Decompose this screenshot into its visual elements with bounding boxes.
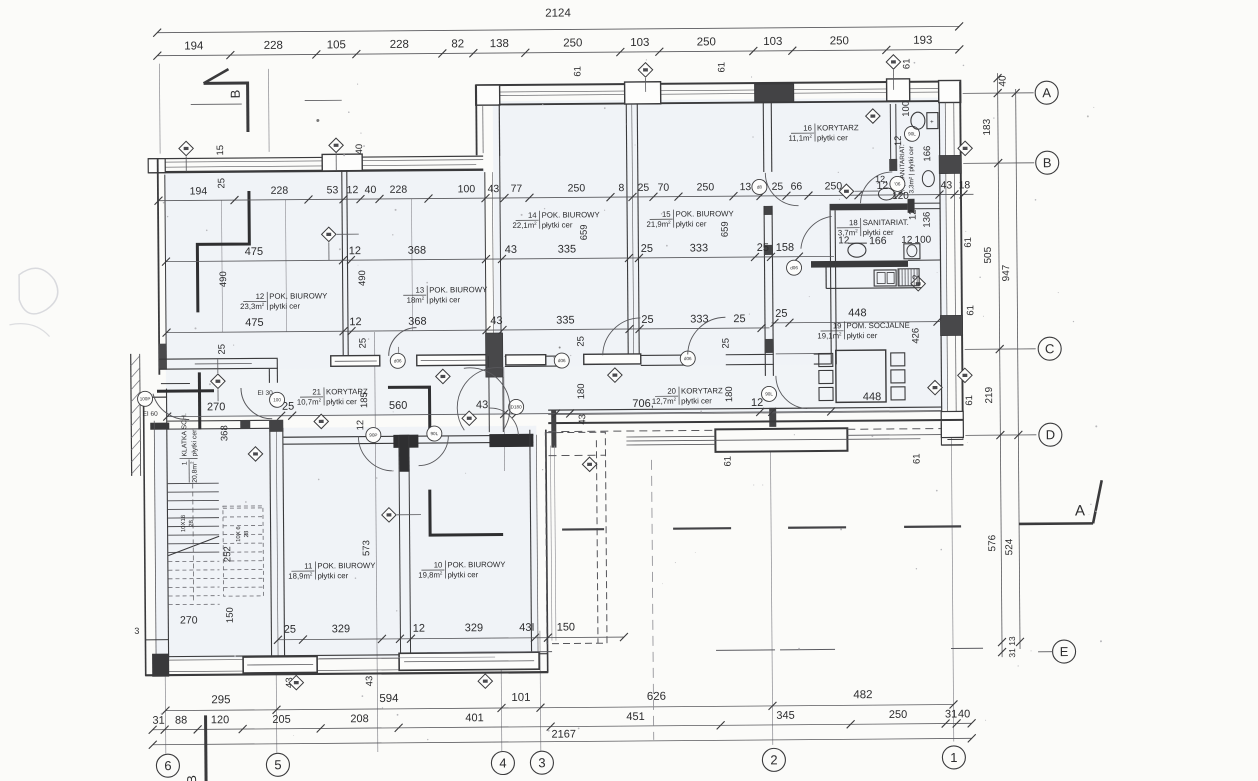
svg-text:329: 329 xyxy=(465,622,483,634)
svg-text:25: 25 xyxy=(216,178,227,189)
room label 15 xyxy=(646,209,734,229)
svg-text:82: 82 xyxy=(451,38,464,50)
svg-text:43: 43 xyxy=(488,183,500,195)
svg-text:25: 25 xyxy=(641,243,653,255)
svg-text:524: 524 xyxy=(1004,538,1015,555)
svg-text:368: 368 xyxy=(219,425,230,441)
grid bubble 6 xyxy=(156,754,179,777)
svg-text:płytki cer: płytki cer xyxy=(429,295,460,304)
washbasin corridor17 xyxy=(922,171,934,187)
door circle d06 xyxy=(786,260,801,275)
svg-text:10: 10 xyxy=(434,560,443,569)
wall stub below room19 door xyxy=(769,408,776,427)
svg-text:208: 208 xyxy=(350,713,368,725)
svg-text:252: 252 xyxy=(222,546,233,562)
dim chain bottom total 2167 xyxy=(153,738,972,744)
svg-text:451: 451 xyxy=(626,711,644,723)
svg-text:2167: 2167 xyxy=(551,728,576,740)
svg-text:4: 4 xyxy=(499,755,506,770)
svg-text:61: 61 xyxy=(901,58,912,69)
svg-text:90L: 90L xyxy=(765,391,773,396)
svg-text:295: 295 xyxy=(211,694,230,706)
door arc room14 xyxy=(602,318,640,355)
svg-text:61: 61 xyxy=(723,456,734,467)
svg-text:120: 120 xyxy=(211,714,229,726)
door arc room11 xyxy=(358,436,393,471)
building corner step SE xyxy=(940,423,942,446)
door arc room19 xyxy=(776,376,807,409)
entrance slab xyxy=(715,428,847,452)
svg-text:19: 19 xyxy=(833,321,842,330)
svg-text:180: 180 xyxy=(576,383,587,399)
svg-text:płytki cer: płytki cer xyxy=(676,219,707,228)
terrace vertical dash xyxy=(652,460,654,740)
svg-text:25: 25 xyxy=(284,624,296,636)
svg-text:100: 100 xyxy=(901,101,912,117)
svg-text:180: 180 xyxy=(724,386,735,402)
door circle 100 xyxy=(270,392,285,407)
svg-text:21,9m2: 21,9m2 xyxy=(646,220,671,229)
svg-text:KORYTARZ: KORYTARZ xyxy=(326,387,368,396)
svg-text:193: 193 xyxy=(913,35,932,47)
sink oval sanit17 lower xyxy=(878,188,894,200)
svg-text:482: 482 xyxy=(853,689,872,701)
dim chain bottom level 2 xyxy=(153,723,972,729)
svg-text:B: B xyxy=(228,90,243,99)
exterior wall top (left block) xyxy=(148,156,483,159)
section marker B top xyxy=(204,81,248,84)
svg-text:11: 11 xyxy=(304,562,312,571)
svg-text:158: 158 xyxy=(776,242,794,254)
kitchen counter xyxy=(826,287,921,290)
wall corner jog bottom-left xyxy=(145,639,169,641)
svg-text:43: 43 xyxy=(364,676,375,687)
table room19 xyxy=(836,350,886,402)
svg-text:40: 40 xyxy=(354,144,365,155)
svg-text:505: 505 xyxy=(983,246,994,263)
exterior wall south (lower block) xyxy=(154,654,548,657)
wall corridor21 north band xyxy=(159,357,278,360)
svg-text:D: D xyxy=(1046,427,1056,442)
svg-text:6: 6 xyxy=(164,758,171,773)
svg-text:43: 43 xyxy=(505,244,517,256)
svg-text:22,1m2: 22,1m2 xyxy=(512,221,537,230)
svg-text:66: 66 xyxy=(791,181,803,193)
dim chain y329 xyxy=(167,328,770,333)
svg-text:333: 333 xyxy=(690,242,708,254)
svg-text:205: 205 xyxy=(272,714,290,726)
wall stairwell north xyxy=(150,423,169,430)
svg-text:19,8m2: 19,8m2 xyxy=(418,570,443,579)
svg-text:KORYTARZ: KORYTARZ xyxy=(817,123,859,132)
scan smudge left margin xyxy=(19,268,58,314)
door circle d06 xyxy=(890,176,905,191)
svg-text:28: 28 xyxy=(244,530,250,537)
wall box segment right xyxy=(399,652,539,670)
room label 14 xyxy=(512,210,600,230)
grid extension lines to right bubbles xyxy=(963,92,1034,95)
svg-text:25: 25 xyxy=(576,336,587,347)
svg-text:15: 15 xyxy=(662,210,671,219)
partition mark room12 (thick zigzag) xyxy=(197,191,250,312)
svg-text:POK. BIUROWY: POK. BIUROWY xyxy=(429,285,488,294)
svg-text:POK. BIUROWY: POK. BIUROWY xyxy=(542,210,601,219)
svg-text:d8: d8 xyxy=(757,185,763,190)
svg-text:150: 150 xyxy=(225,607,236,623)
diamond markers xyxy=(179,141,194,156)
svg-text:40: 40 xyxy=(998,75,1009,87)
svg-text:250: 250 xyxy=(563,37,582,49)
wall dark T-stub rooms11/10 doors xyxy=(393,435,418,448)
svg-text:d06: d06 xyxy=(394,358,402,363)
svg-text:490: 490 xyxy=(357,270,368,286)
svg-text:POK. BIUROWY: POK. BIUROWY xyxy=(317,561,376,570)
porch dashed outline xyxy=(545,432,607,643)
svg-text:płytki cer: płytki cer xyxy=(269,302,300,311)
stairs center line xyxy=(192,483,195,603)
door arc room13 xyxy=(389,328,417,356)
svg-text:61: 61 xyxy=(912,453,923,464)
svg-text:90P: 90P xyxy=(369,433,377,438)
wall window pier xyxy=(625,82,661,104)
svg-text:43: 43 xyxy=(490,315,502,327)
grid line 6 top xyxy=(158,64,161,154)
grid line 5 top xyxy=(267,69,270,152)
svg-text:SANITARIAT.: SANITARIAT. xyxy=(863,218,909,227)
svg-text:576: 576 xyxy=(987,534,998,551)
dim chain top segments xyxy=(157,49,959,55)
svg-text:194: 194 xyxy=(190,185,208,197)
bottom grid extension lines xyxy=(164,677,167,754)
room label 18 xyxy=(837,218,909,238)
svg-text:573: 573 xyxy=(361,540,372,556)
svg-text:18,9m2: 18,9m2 xyxy=(288,571,313,580)
svg-text:228: 228 xyxy=(271,185,289,197)
chairs left xyxy=(819,353,833,366)
svg-text:100: 100 xyxy=(273,397,281,402)
wall divider corridor16/sanitariat17 xyxy=(889,104,892,171)
wall glazing line xyxy=(319,657,495,658)
wall divider room14/15 xyxy=(626,104,628,355)
svg-text:d06: d06 xyxy=(790,265,798,270)
svg-text:18: 18 xyxy=(849,218,858,227)
svg-text:401: 401 xyxy=(465,712,483,724)
svg-text:B: B xyxy=(1043,155,1052,170)
wall turn-down at corridor/stair xyxy=(268,369,270,383)
svg-text:335: 335 xyxy=(556,314,574,326)
wall corner pier right xyxy=(939,80,961,102)
svg-text:13: 13 xyxy=(415,286,424,295)
svg-text:płytki cer: płytki cer xyxy=(863,228,894,237)
svg-text:270: 270 xyxy=(180,614,198,626)
svg-text:płytki cer: płytki cer xyxy=(191,429,198,457)
svg-text:+: + xyxy=(930,120,934,126)
wall divider room11/10 x398-408 xyxy=(399,436,401,657)
svg-text:C: C xyxy=(1045,341,1055,356)
grid bubble E xyxy=(1052,640,1075,663)
svg-text:12: 12 xyxy=(256,292,265,301)
svg-text:136: 136 xyxy=(922,212,933,228)
svg-text:138: 138 xyxy=(490,38,509,50)
svg-text:d06: d06 xyxy=(558,358,566,363)
door circle 90L xyxy=(904,126,919,141)
door arc stairwell right xyxy=(241,388,272,419)
terrace boundary dashes row1 xyxy=(562,528,604,531)
svg-text:270: 270 xyxy=(207,401,225,413)
svg-text:25: 25 xyxy=(772,181,784,193)
svg-text:POK. BIUROWY: POK. BIUROWY xyxy=(447,560,506,569)
terrace boundary dashes row2 xyxy=(427,651,552,654)
svg-text:100P: 100P xyxy=(140,396,151,401)
svg-text:3,3m² | płytki cer: 3,3m² | płytki cer xyxy=(908,145,915,193)
exterior wall left (lower block) xyxy=(144,397,146,676)
stairs treads xyxy=(168,483,220,552)
svg-text:706,: 706, xyxy=(632,398,654,410)
svg-text:475: 475 xyxy=(245,246,263,258)
svg-text:329: 329 xyxy=(332,623,350,635)
svg-text:25: 25 xyxy=(775,308,787,320)
slab right lines xyxy=(847,434,941,437)
partition mark room10 (thick L) xyxy=(430,489,503,535)
room label 19 xyxy=(817,321,910,341)
exterior wall left (left block) xyxy=(158,159,160,375)
door circle d06 xyxy=(680,351,695,366)
exterior wall right (lower block) x529-546 xyxy=(530,430,532,661)
grid bubble 2 xyxy=(762,748,785,771)
wall lower block north xyxy=(283,435,533,437)
svg-text:1: 1 xyxy=(182,461,189,465)
svg-text:659: 659 xyxy=(579,224,590,240)
grid bubble 3 xyxy=(530,751,553,774)
dim chain y413 corridor xyxy=(167,411,941,417)
svg-text:EI 60: EI 60 xyxy=(143,411,159,418)
svg-text:25: 25 xyxy=(721,338,732,349)
svg-text:70: 70 xyxy=(658,182,670,194)
svg-text:333: 333 xyxy=(690,313,708,325)
svg-text:368: 368 xyxy=(408,316,426,328)
hatched neighbour wall xyxy=(131,354,141,476)
toilet sanitariat17 xyxy=(911,112,925,129)
svg-text:A: A xyxy=(1075,502,1085,519)
svg-text:15: 15 xyxy=(215,145,226,156)
door circle 90L xyxy=(761,386,776,401)
exterior wall top (right block) xyxy=(476,81,961,85)
wall bottom of sanitariat18 xyxy=(811,260,908,267)
wall stub xyxy=(551,410,556,448)
svg-text:43: 43 xyxy=(577,414,588,425)
svg-text:12: 12 xyxy=(349,316,361,328)
stairs diagonal xyxy=(168,536,219,555)
building interior tint xyxy=(152,98,949,659)
room label 12 xyxy=(240,291,328,311)
grid bubble A xyxy=(1035,81,1058,104)
partition mark corridor21 (thick L) xyxy=(388,387,430,434)
wall pier window box xyxy=(322,154,362,171)
wall pier left corner xyxy=(148,159,165,173)
svg-text:25: 25 xyxy=(733,313,745,325)
svg-text:23,3m2: 23,3m2 xyxy=(240,302,265,311)
slab approach lines xyxy=(626,435,715,438)
door arc vestibule xyxy=(464,368,510,431)
wall band room13 segment xyxy=(331,355,380,366)
svg-text:5: 5 xyxy=(274,757,281,772)
grid bubble C xyxy=(1038,337,1061,360)
stairs dashed lower flight xyxy=(168,506,264,605)
svg-text:25: 25 xyxy=(217,344,228,355)
exterior wall right xyxy=(960,81,963,438)
svg-text:61: 61 xyxy=(964,395,975,406)
svg-text:21: 21 xyxy=(312,387,321,396)
svg-text:płytki cer: płytki cer xyxy=(847,331,878,340)
svg-text:d06: d06 xyxy=(684,356,692,361)
door circle 90P xyxy=(366,427,381,442)
svg-text:10X 6: 10X 6 xyxy=(236,526,242,542)
svg-text:13: 13 xyxy=(740,181,752,193)
svg-text:2: 2 xyxy=(770,752,777,767)
room label 1 stairwell (rotated) xyxy=(179,413,199,483)
svg-text:A: A xyxy=(1042,85,1051,100)
svg-text:194: 194 xyxy=(184,40,204,52)
svg-text:43I: 43I xyxy=(519,622,534,634)
wall top of sanitariat18 xyxy=(830,203,908,210)
wall window pier xyxy=(887,79,910,101)
svg-text:53: 53 xyxy=(327,184,339,196)
svg-text:3: 3 xyxy=(538,755,545,770)
svg-text:228: 228 xyxy=(390,184,408,196)
dim chain bottom level 1 xyxy=(166,704,954,710)
svg-text:płytki cer: płytki cer xyxy=(542,220,573,229)
svg-text:105: 105 xyxy=(327,39,346,51)
svg-text:61: 61 xyxy=(716,62,727,73)
svg-text:POK. BIUROWY: POK. BIUROWY xyxy=(676,209,735,218)
svg-text:14: 14 xyxy=(528,211,537,220)
wall corner pier xyxy=(941,411,963,437)
washbasin sanitariat18 xyxy=(848,243,866,257)
svg-text:3,7m2: 3,7m2 xyxy=(838,228,858,237)
porch inner lines xyxy=(550,446,552,641)
svg-text:100: 100 xyxy=(458,183,476,195)
wall corridor20/room19 xyxy=(830,210,831,364)
svg-text:18: 18 xyxy=(959,179,971,191)
wall divider room15/corridor16 xyxy=(762,103,765,172)
svg-text:103: 103 xyxy=(763,36,782,48)
svg-text:25: 25 xyxy=(638,182,650,194)
svg-text:19,1m2: 19,1m2 xyxy=(817,331,842,340)
wall dark pier xyxy=(755,84,794,102)
svg-text:61: 61 xyxy=(572,66,583,77)
room label 16 xyxy=(788,123,859,143)
wall between blocks x486-502 xyxy=(485,172,486,356)
svg-text:25: 25 xyxy=(641,314,653,326)
svg-text:11,1m2: 11,1m2 xyxy=(788,134,812,143)
svg-text:166: 166 xyxy=(922,146,933,162)
svg-text:2124: 2124 xyxy=(545,7,571,19)
svg-text:D180: D180 xyxy=(511,404,522,409)
svg-text:77: 77 xyxy=(511,183,523,195)
wall pier xyxy=(159,344,167,370)
svg-text:25: 25 xyxy=(358,338,369,349)
door arc entrance xyxy=(489,408,518,435)
door arc room10 xyxy=(418,435,448,465)
dim chain y258 xyxy=(166,256,834,261)
svg-text:335: 335 xyxy=(558,243,576,255)
svg-text:10,7m2: 10,7m2 xyxy=(297,397,322,406)
svg-text:101: 101 xyxy=(511,692,530,704)
svg-text:płytki cer: płytki cer xyxy=(317,571,348,580)
door arc corridor16 xyxy=(765,173,798,206)
svg-text:250: 250 xyxy=(697,181,715,193)
svg-text:88: 88 xyxy=(175,714,187,726)
section marker B bottom xyxy=(204,715,208,781)
svg-text:POM. SOCJALNE: POM. SOCJALNE xyxy=(846,321,909,330)
svg-text:560: 560 xyxy=(389,400,407,412)
door circle d06 xyxy=(390,353,405,368)
exterior wall south (right block) xyxy=(548,407,941,410)
svg-text:150: 150 xyxy=(557,621,575,633)
svg-text:10X16: 10X16 xyxy=(181,514,187,532)
wall pier xyxy=(940,315,962,335)
svg-text:43: 43 xyxy=(941,179,953,191)
door circle d08 xyxy=(752,179,767,194)
svg-text:12: 12 xyxy=(413,623,425,635)
scan speckle noise xyxy=(156,56,1103,743)
svg-text:E: E xyxy=(1060,644,1069,659)
grid bubble 5 xyxy=(266,753,289,776)
scan specks xyxy=(316,119,319,122)
door arc sanitariat18 xyxy=(801,216,832,248)
wall divider stair/room11 x269-283 xyxy=(270,420,272,658)
svg-text:594: 594 xyxy=(379,693,399,705)
svg-text:250: 250 xyxy=(697,36,716,48)
svg-text:475: 475 xyxy=(245,317,263,329)
svg-text:228: 228 xyxy=(264,40,283,52)
dim chain y324 room19 xyxy=(771,322,940,323)
room label 13 xyxy=(403,285,488,305)
svg-text:20: 20 xyxy=(667,387,676,396)
exterior wall left (right block) xyxy=(475,85,478,155)
door circle D180 xyxy=(509,399,524,414)
section marker A right xyxy=(1019,522,1093,525)
svg-text:250: 250 xyxy=(830,35,849,47)
wall corner pier xyxy=(476,85,500,105)
svg-text:3: 3 xyxy=(134,626,139,636)
wall divider room12/13 xyxy=(342,170,343,357)
svg-text:90L: 90L xyxy=(908,131,916,136)
room label 11 xyxy=(288,561,376,581)
svg-text:626: 626 xyxy=(647,691,666,703)
grid bubble 1 xyxy=(942,746,965,769)
partition cross near stairwell xyxy=(157,389,214,392)
dim chain y637 lower rooms xyxy=(278,637,624,640)
wall pier xyxy=(939,155,961,173)
svg-text:'06: '06 xyxy=(894,181,900,186)
wall vestibule xyxy=(487,356,489,367)
door arc room15 xyxy=(687,317,725,354)
dim chain total 2124 (top) xyxy=(157,26,959,32)
room label 17 (rotated) xyxy=(899,144,915,195)
room label 21 xyxy=(297,387,368,407)
svg-text:61: 61 xyxy=(963,237,974,248)
svg-text:płytki cer: płytki cer xyxy=(447,570,478,579)
svg-text:12: 12 xyxy=(751,397,763,409)
door circle d06 xyxy=(554,353,569,368)
svg-text:12: 12 xyxy=(908,209,919,220)
extension lines interior xyxy=(285,200,286,332)
wall corner dark SW xyxy=(152,654,169,677)
svg-text:25: 25 xyxy=(757,242,769,254)
door arc sanitariat17 xyxy=(860,172,892,203)
diamond stems xyxy=(185,156,187,171)
